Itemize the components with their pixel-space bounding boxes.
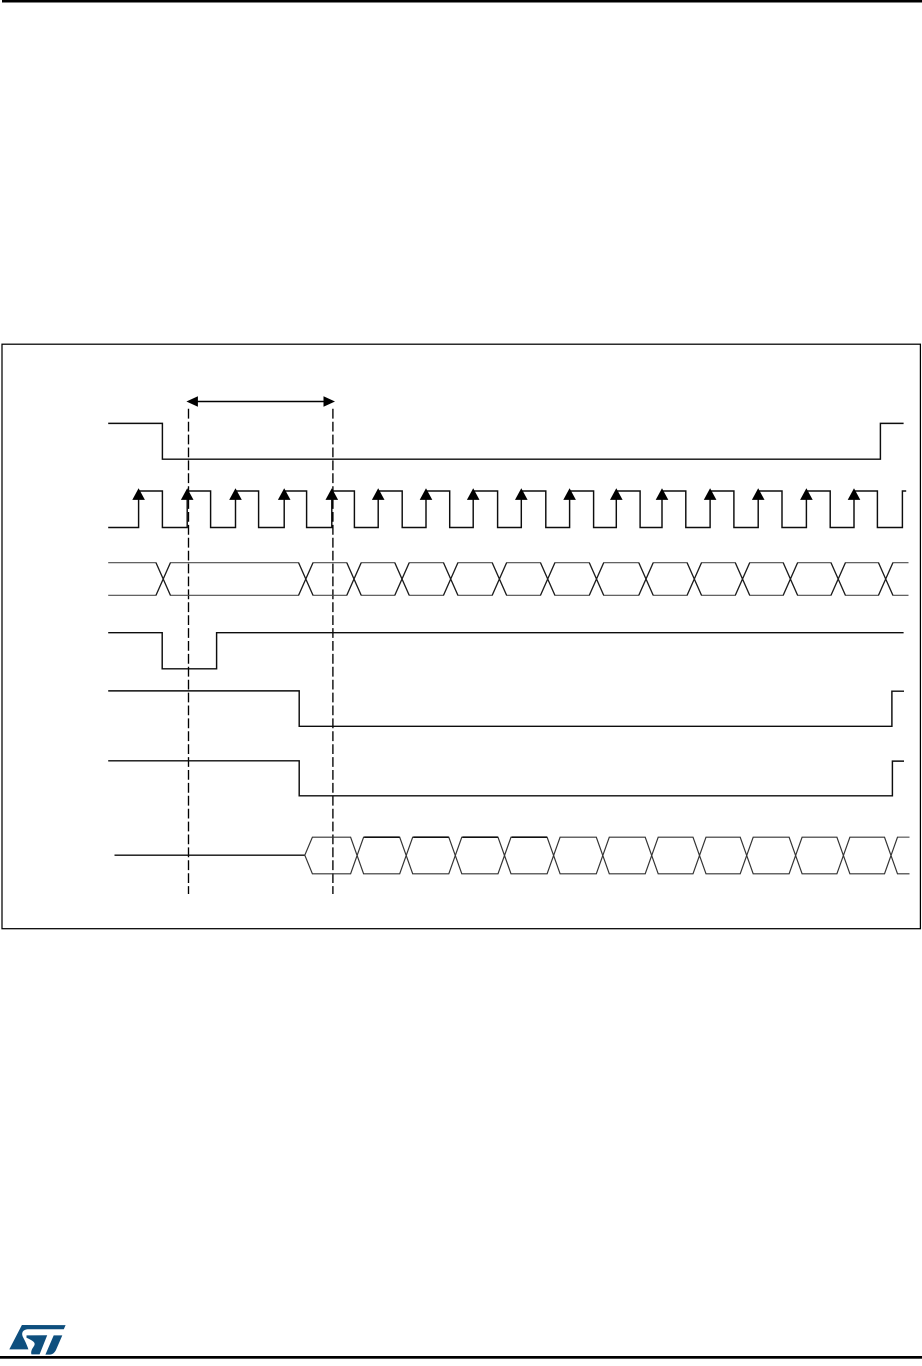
dashed cursor line t2 xyxy=(332,409,334,894)
top rule xyxy=(2,0,922,3)
signal 2: clock waveform xyxy=(108,491,906,528)
clock rising-edge sampling arrows xyxy=(132,488,860,500)
signal 5: enable, falls mid, rises at end xyxy=(108,691,904,726)
signal 3: data bus with transitions xyxy=(108,563,908,596)
signal 7: output data bus, idle line then data xyxy=(115,854,305,856)
bus 7 gray end stub xyxy=(898,836,909,838)
bus 7 bold cell tops xyxy=(364,836,547,838)
bus 3 crossover slants (darker) xyxy=(156,563,893,596)
figure frame xyxy=(2,344,920,929)
timing interval double arrow xyxy=(186,396,335,407)
signal 6: output enable, falls mid, rises at end xyxy=(108,761,904,796)
signal 1: chip select, falls then rises at end xyxy=(108,423,903,459)
bottom bar xyxy=(0,1356,922,1359)
dashed cursor line t1 xyxy=(188,409,190,894)
ST logo xyxy=(9,1325,65,1355)
signal 4: strobe with low pulse xyxy=(108,633,903,669)
